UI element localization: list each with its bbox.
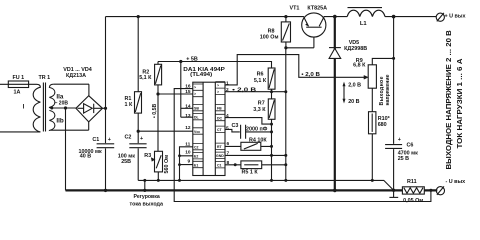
- svg-text:C1: C1: [92, 137, 99, 143]
- svg-text:>: >: [194, 92, 196, 96]
- svg-text:+: +: [140, 136, 143, 142]
- svg-text:20 В: 20 В: [348, 99, 359, 105]
- svg-text:8: 8: [227, 160, 230, 166]
- svg-text:680: 680: [378, 122, 387, 128]
- svg-text:2,0 В: 2,0 В: [348, 82, 361, 88]
- svg-text:VT1: VT1: [290, 6, 300, 12]
- svg-text:>: >: [217, 90, 219, 94]
- svg-text:>: >: [217, 84, 219, 88]
- svg-text:R4 10К: R4 10К: [249, 137, 267, 143]
- svg-text:C2: C2: [194, 145, 199, 149]
- svg-text:560 Ом: 560 Ом: [164, 155, 170, 174]
- svg-text:E2: E2: [194, 155, 198, 159]
- svg-text:12: 12: [185, 125, 191, 131]
- svg-text:• 2,0 В: • 2,0 В: [232, 87, 256, 93]
- svg-text:IIb: IIb: [56, 117, 63, 124]
- svg-text:C6: C6: [407, 142, 414, 148]
- svg-text:FB: FB: [217, 106, 222, 110]
- svg-text:14: 14: [185, 104, 191, 110]
- svg-text:5: 5: [226, 125, 229, 131]
- svg-text:13: 13: [185, 113, 191, 119]
- svg-text:SB: SB: [194, 106, 199, 110]
- svg-text:DC: DC: [217, 116, 223, 120]
- svg-text:R5 1 К: R5 1 К: [242, 170, 259, 176]
- svg-text:R11: R11: [407, 179, 417, 185]
- svg-text:C3: C3: [232, 123, 239, 129]
- svg-text:40 В: 40 В: [80, 154, 91, 160]
- svg-text:ТОК НАГРУЗКИ 1 ... 6 А: ТОК НАГРУЗКИ 1 ... 6 А: [455, 58, 464, 148]
- svg-text:1 К: 1 К: [125, 102, 133, 108]
- svg-text:11: 11: [185, 141, 190, 147]
- svg-text:+: +: [398, 137, 401, 143]
- svg-text:16: 16: [185, 84, 191, 90]
- svg-text:1A: 1A: [14, 89, 21, 95]
- svg-text:• 2,0 В: • 2,0 В: [301, 72, 320, 78]
- svg-text:КД2998В: КД2998В: [344, 46, 367, 52]
- svg-text:15: 15: [185, 89, 191, 95]
- svg-text:Регуровка: Регуровка: [134, 194, 160, 200]
- svg-text:4: 4: [226, 113, 229, 119]
- svg-text:R3: R3: [144, 153, 151, 159]
- svg-text:R6: R6: [257, 71, 264, 77]
- svg-text:100 Ом: 100 Ом: [260, 35, 279, 41]
- svg-text:1: 1: [226, 80, 229, 86]
- svg-text:L1: L1: [360, 21, 368, 27]
- svg-text:Vcc: Vcc: [194, 130, 200, 134]
- svg-text:0,05 Ом: 0,05 Ом: [403, 198, 423, 204]
- svg-text:ВЫХОДНОЕ НАПРЯЖЕНИЕ 2 ... 20 В: ВЫХОДНОЕ НАПРЯЖЕНИЕ 2 ... 20 В: [444, 30, 453, 170]
- svg-text:7: 7: [227, 150, 230, 156]
- svg-text:+ U вых: + U вых: [445, 14, 466, 20]
- svg-text:напряжение: напряжение: [385, 74, 391, 105]
- svg-text:9: 9: [188, 158, 191, 164]
- svg-text:R10*: R10*: [378, 116, 391, 122]
- svg-text:- U вых: - U вых: [446, 179, 466, 185]
- svg-text:5,1 К: 5,1 К: [139, 75, 152, 81]
- svg-text:6: 6: [227, 141, 230, 147]
- svg-text:25 В: 25 В: [398, 156, 409, 162]
- svg-text:КД213А: КД213А: [66, 73, 86, 79]
- svg-text:R1: R1: [125, 96, 132, 102]
- svg-text:E1: E1: [194, 163, 198, 167]
- svg-text:TR 1: TR 1: [39, 75, 51, 81]
- svg-text:10: 10: [185, 150, 191, 156]
- svg-text:6,8 К: 6,8 К: [353, 63, 366, 69]
- svg-text:R7: R7: [258, 100, 265, 106]
- svg-text:25В: 25В: [121, 159, 131, 165]
- svg-text:~ 20В: ~ 20В: [55, 101, 69, 107]
- svg-text:>: >: [194, 86, 196, 90]
- svg-text:2000 пФ: 2000 пФ: [246, 127, 268, 133]
- svg-text:тока выхода: тока выхода: [130, 202, 164, 208]
- svg-text:2: 2: [226, 87, 229, 93]
- svg-text:FU 1: FU 1: [13, 75, 25, 81]
- svg-text:C2: C2: [125, 134, 132, 140]
- svg-text:3,3 К: 3,3 К: [253, 107, 266, 113]
- svg-text:C1: C1: [217, 164, 222, 168]
- svg-text:(TL494): (TL494): [190, 72, 212, 78]
- svg-text:+ 5В: + 5В: [186, 57, 198, 63]
- svg-text:5,1 К: 5,1 К: [254, 78, 267, 84]
- svg-text:КТ825А: КТ825А: [307, 6, 327, 12]
- svg-text:• 0,5В: • 0,5В: [152, 104, 158, 118]
- svg-text:+: +: [108, 137, 111, 143]
- svg-text:IIa: IIa: [56, 94, 63, 101]
- svg-text:GND: GND: [216, 154, 224, 158]
